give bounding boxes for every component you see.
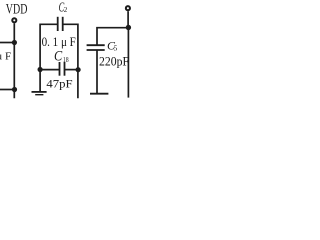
wire left rail vertical: [13, 23, 15, 98]
value label 220pF: [99, 55, 129, 69]
node junction dot mid right: [76, 67, 81, 72]
svg-text:18: 18: [63, 55, 69, 64]
wire right rail vertical: [127, 28, 129, 98]
node junction dot left lower: [12, 87, 17, 92]
svg-text:0. 1 μ F: 0. 1 μ F: [42, 34, 76, 49]
ground symbol below C2 branch: [32, 91, 47, 93]
value label 47pF: [46, 77, 73, 91]
wire C2 left lead and drop to ground: [40, 24, 58, 91]
value label 0.1 uF: [42, 34, 76, 49]
svg-text:C: C: [54, 48, 62, 64]
wire top right rail with corner to C5: [97, 28, 128, 45]
terminal VDD open circle: [12, 18, 16, 22]
svg-text:μ F: μ F: [0, 51, 11, 63]
wire horizontal stub lower left: [0, 89, 15, 91]
wire horizontal stub upper left: [0, 42, 14, 44]
capacitor C5 plates horizontal: [87, 44, 105, 46]
svg-text:220pF: 220pF: [99, 55, 129, 69]
wire C2 right lead and drop: [63, 24, 78, 98]
ground bar termination of C5: [90, 93, 108, 95]
svg-text:5: 5: [114, 43, 118, 52]
value label muF of cropped capacitor at left edge: [0, 51, 11, 63]
wire middle rail right segment: [65, 69, 79, 71]
net label VDD: [6, 0, 28, 17]
node junction dot mid left: [38, 67, 43, 72]
capacitor C18 plates: [59, 62, 61, 76]
label C18: [54, 48, 69, 64]
terminal open circle top right: [126, 6, 130, 10]
label C5: [107, 38, 118, 52]
wire C5 bottom lead: [96, 50, 98, 93]
wire from terminal down to junction: [127, 11, 129, 28]
capacitor C2 plates: [57, 17, 59, 31]
label C2: [59, 0, 68, 14]
node junction dot top right: [126, 25, 131, 30]
svg-text:47pF: 47pF: [46, 77, 73, 91]
svg-text:VDD: VDD: [6, 0, 28, 17]
node junction dot left upper: [12, 40, 17, 45]
svg-text:2: 2: [64, 6, 68, 14]
wire middle rail left segment: [40, 69, 59, 71]
